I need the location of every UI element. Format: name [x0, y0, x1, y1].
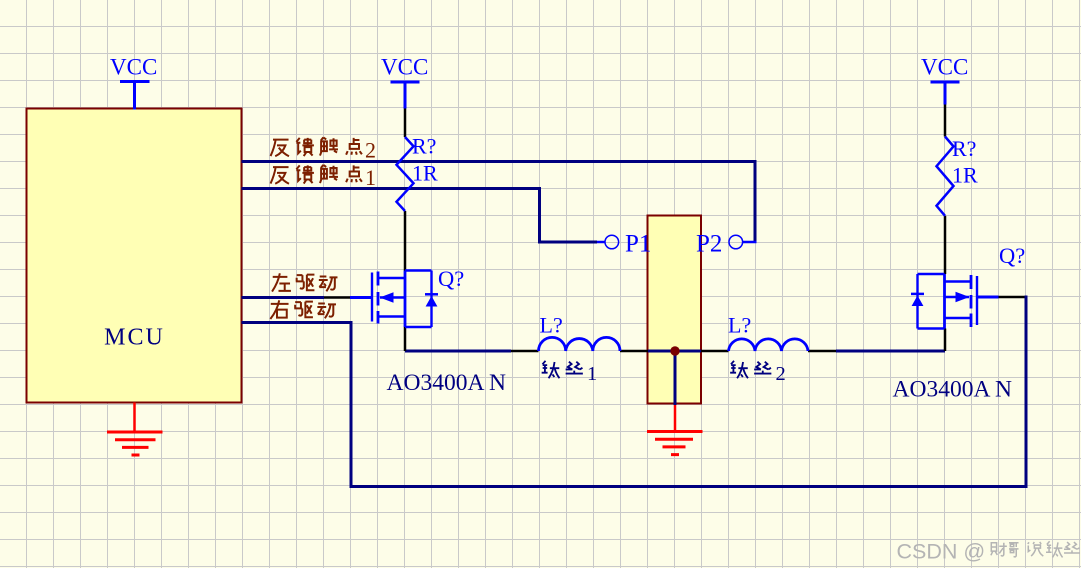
svg-text:P2: P2 — [696, 231, 722, 258]
svg-text:1R: 1R — [952, 163, 978, 188]
svg-text:P1: P1 — [625, 231, 651, 258]
svg-text:L?: L? — [728, 313, 751, 338]
svg-text:CSDN @: CSDN @ — [897, 540, 986, 564]
svg-text:2: 2 — [365, 138, 376, 163]
svg-text:VCC: VCC — [381, 55, 428, 80]
svg-text:1R: 1R — [412, 161, 438, 186]
svg-text:R?: R? — [952, 136, 976, 161]
svg-text:L?: L? — [540, 313, 563, 338]
svg-text:Q?: Q? — [438, 266, 464, 291]
svg-text:MCU: MCU — [104, 325, 165, 351]
svg-text:R?: R? — [412, 134, 436, 159]
svg-text:AO3400A N: AO3400A N — [893, 377, 1012, 403]
svg-text:1: 1 — [587, 363, 597, 385]
svg-text:1: 1 — [365, 165, 376, 190]
svg-text:VCC: VCC — [921, 55, 968, 80]
svg-text:AO3400A N: AO3400A N — [387, 370, 506, 396]
svg-text:2: 2 — [776, 363, 786, 385]
svg-text:VCC: VCC — [110, 55, 157, 80]
svg-text:Q?: Q? — [999, 243, 1025, 268]
